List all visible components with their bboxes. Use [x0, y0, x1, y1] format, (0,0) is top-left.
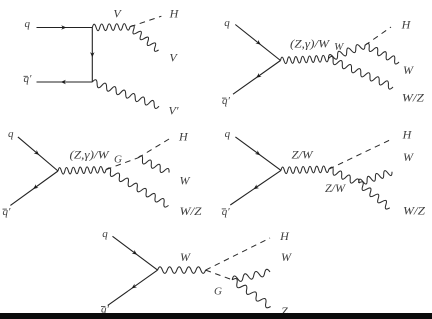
svg-text:V′: V′ [169, 104, 179, 118]
d5 label qbar' [101, 304, 110, 316]
d5 W propagator wavy [158, 267, 206, 274]
svg-text:W: W [180, 250, 191, 264]
svg-text:q: q [8, 128, 14, 140]
d2 outgoing W wavy [365, 43, 399, 64]
d2 outgoing W/Z wavy [329, 56, 394, 89]
svg-text:W/Z: W/Z [180, 204, 202, 218]
svg-text:q: q [225, 128, 231, 140]
d3 incoming antiquark qbar' line [10, 171, 58, 205]
svg-text:W: W [334, 41, 344, 53]
d4 label qbar' [222, 206, 231, 218]
svg-text:q: q [102, 228, 108, 240]
d4 incoming antiquark qbar' line [230, 170, 281, 205]
d2 (Z,gamma)/W propagator wavy [281, 55, 329, 63]
svg-text:q: q [24, 18, 30, 30]
d1 internal quark line (vertical) [90, 28, 94, 83]
svg-text:W: W [403, 150, 414, 164]
svg-text:W/Z: W/Z [403, 204, 425, 218]
svg-text:H: H [169, 7, 180, 21]
svg-text:G: G [114, 154, 122, 166]
d1 boson V' outgoing wavy [92, 80, 159, 109]
d5 Goldstone G dashed line [206, 270, 233, 280]
d5 outgoing W wavy [232, 269, 270, 281]
d2 W propagator wavy (short) [329, 45, 365, 60]
d1 boson V propagator (upper) [92, 24, 130, 31]
d1 Higgs dashed line [130, 16, 161, 27]
svg-text:G: G [214, 285, 222, 297]
d2 incoming quark q line [235, 25, 280, 61]
d3 label qbar' [3, 206, 12, 218]
bottom black bar [0, 313, 432, 319]
svg-text:q′: q′ [3, 206, 12, 218]
svg-text:H: H [402, 128, 413, 142]
d2 incoming antiquark qbar' line [233, 61, 281, 95]
svg-text:q: q [224, 17, 230, 29]
d4 Higgs dashed line [329, 139, 393, 170]
d5 incoming antiquark qbar' line [108, 270, 158, 305]
d3 Goldstone G dashed line [106, 158, 138, 170]
d1 incoming antiquark qbar' line [37, 80, 93, 84]
d4 Z/W internal wavy (short) [329, 167, 359, 183]
d3 outgoing W wavy [138, 156, 169, 173]
svg-text:q′: q′ [222, 95, 231, 107]
d4 Z/W propagator wavy [281, 166, 329, 174]
d2 label qbar' [222, 95, 231, 107]
svg-text:H: H [401, 17, 412, 31]
svg-text:Z/W: Z/W [325, 181, 346, 195]
d4 outgoing W wavy [359, 171, 392, 184]
d1 boson V outgoing wavy [130, 25, 159, 51]
svg-text:W: W [180, 174, 191, 188]
d3 incoming quark q line [18, 137, 58, 171]
svg-text:H: H [178, 130, 189, 144]
d1 incoming quark q line [37, 25, 93, 29]
d4 outgoing W/Z wavy [359, 182, 390, 209]
svg-text:q′: q′ [222, 206, 231, 218]
d4 incoming quark q line [235, 137, 281, 171]
svg-text:H: H [279, 229, 290, 243]
svg-text:Z/W: Z/W [292, 148, 314, 162]
d2 Higgs dashed line [365, 27, 391, 45]
svg-text:W: W [281, 250, 292, 264]
svg-text:(Z,γ)/W: (Z,γ)/W [290, 37, 330, 51]
svg-text:W: W [403, 63, 414, 77]
d5 incoming quark q line [113, 236, 158, 270]
svg-text:q′: q′ [24, 73, 33, 85]
d3 Higgs dashed line [138, 138, 170, 157]
d5 outgoing Z wavy [232, 278, 270, 307]
svg-text:W/Z: W/Z [402, 91, 424, 105]
svg-text:(Z,γ)/W: (Z,γ)/W [70, 147, 110, 161]
d5 Higgs dashed line [206, 238, 270, 270]
d3 outgoing W/Z wavy [106, 168, 169, 207]
d1 label qbar' [24, 73, 33, 85]
d3 (Z,gamma)/W propagator wavy [58, 166, 106, 174]
